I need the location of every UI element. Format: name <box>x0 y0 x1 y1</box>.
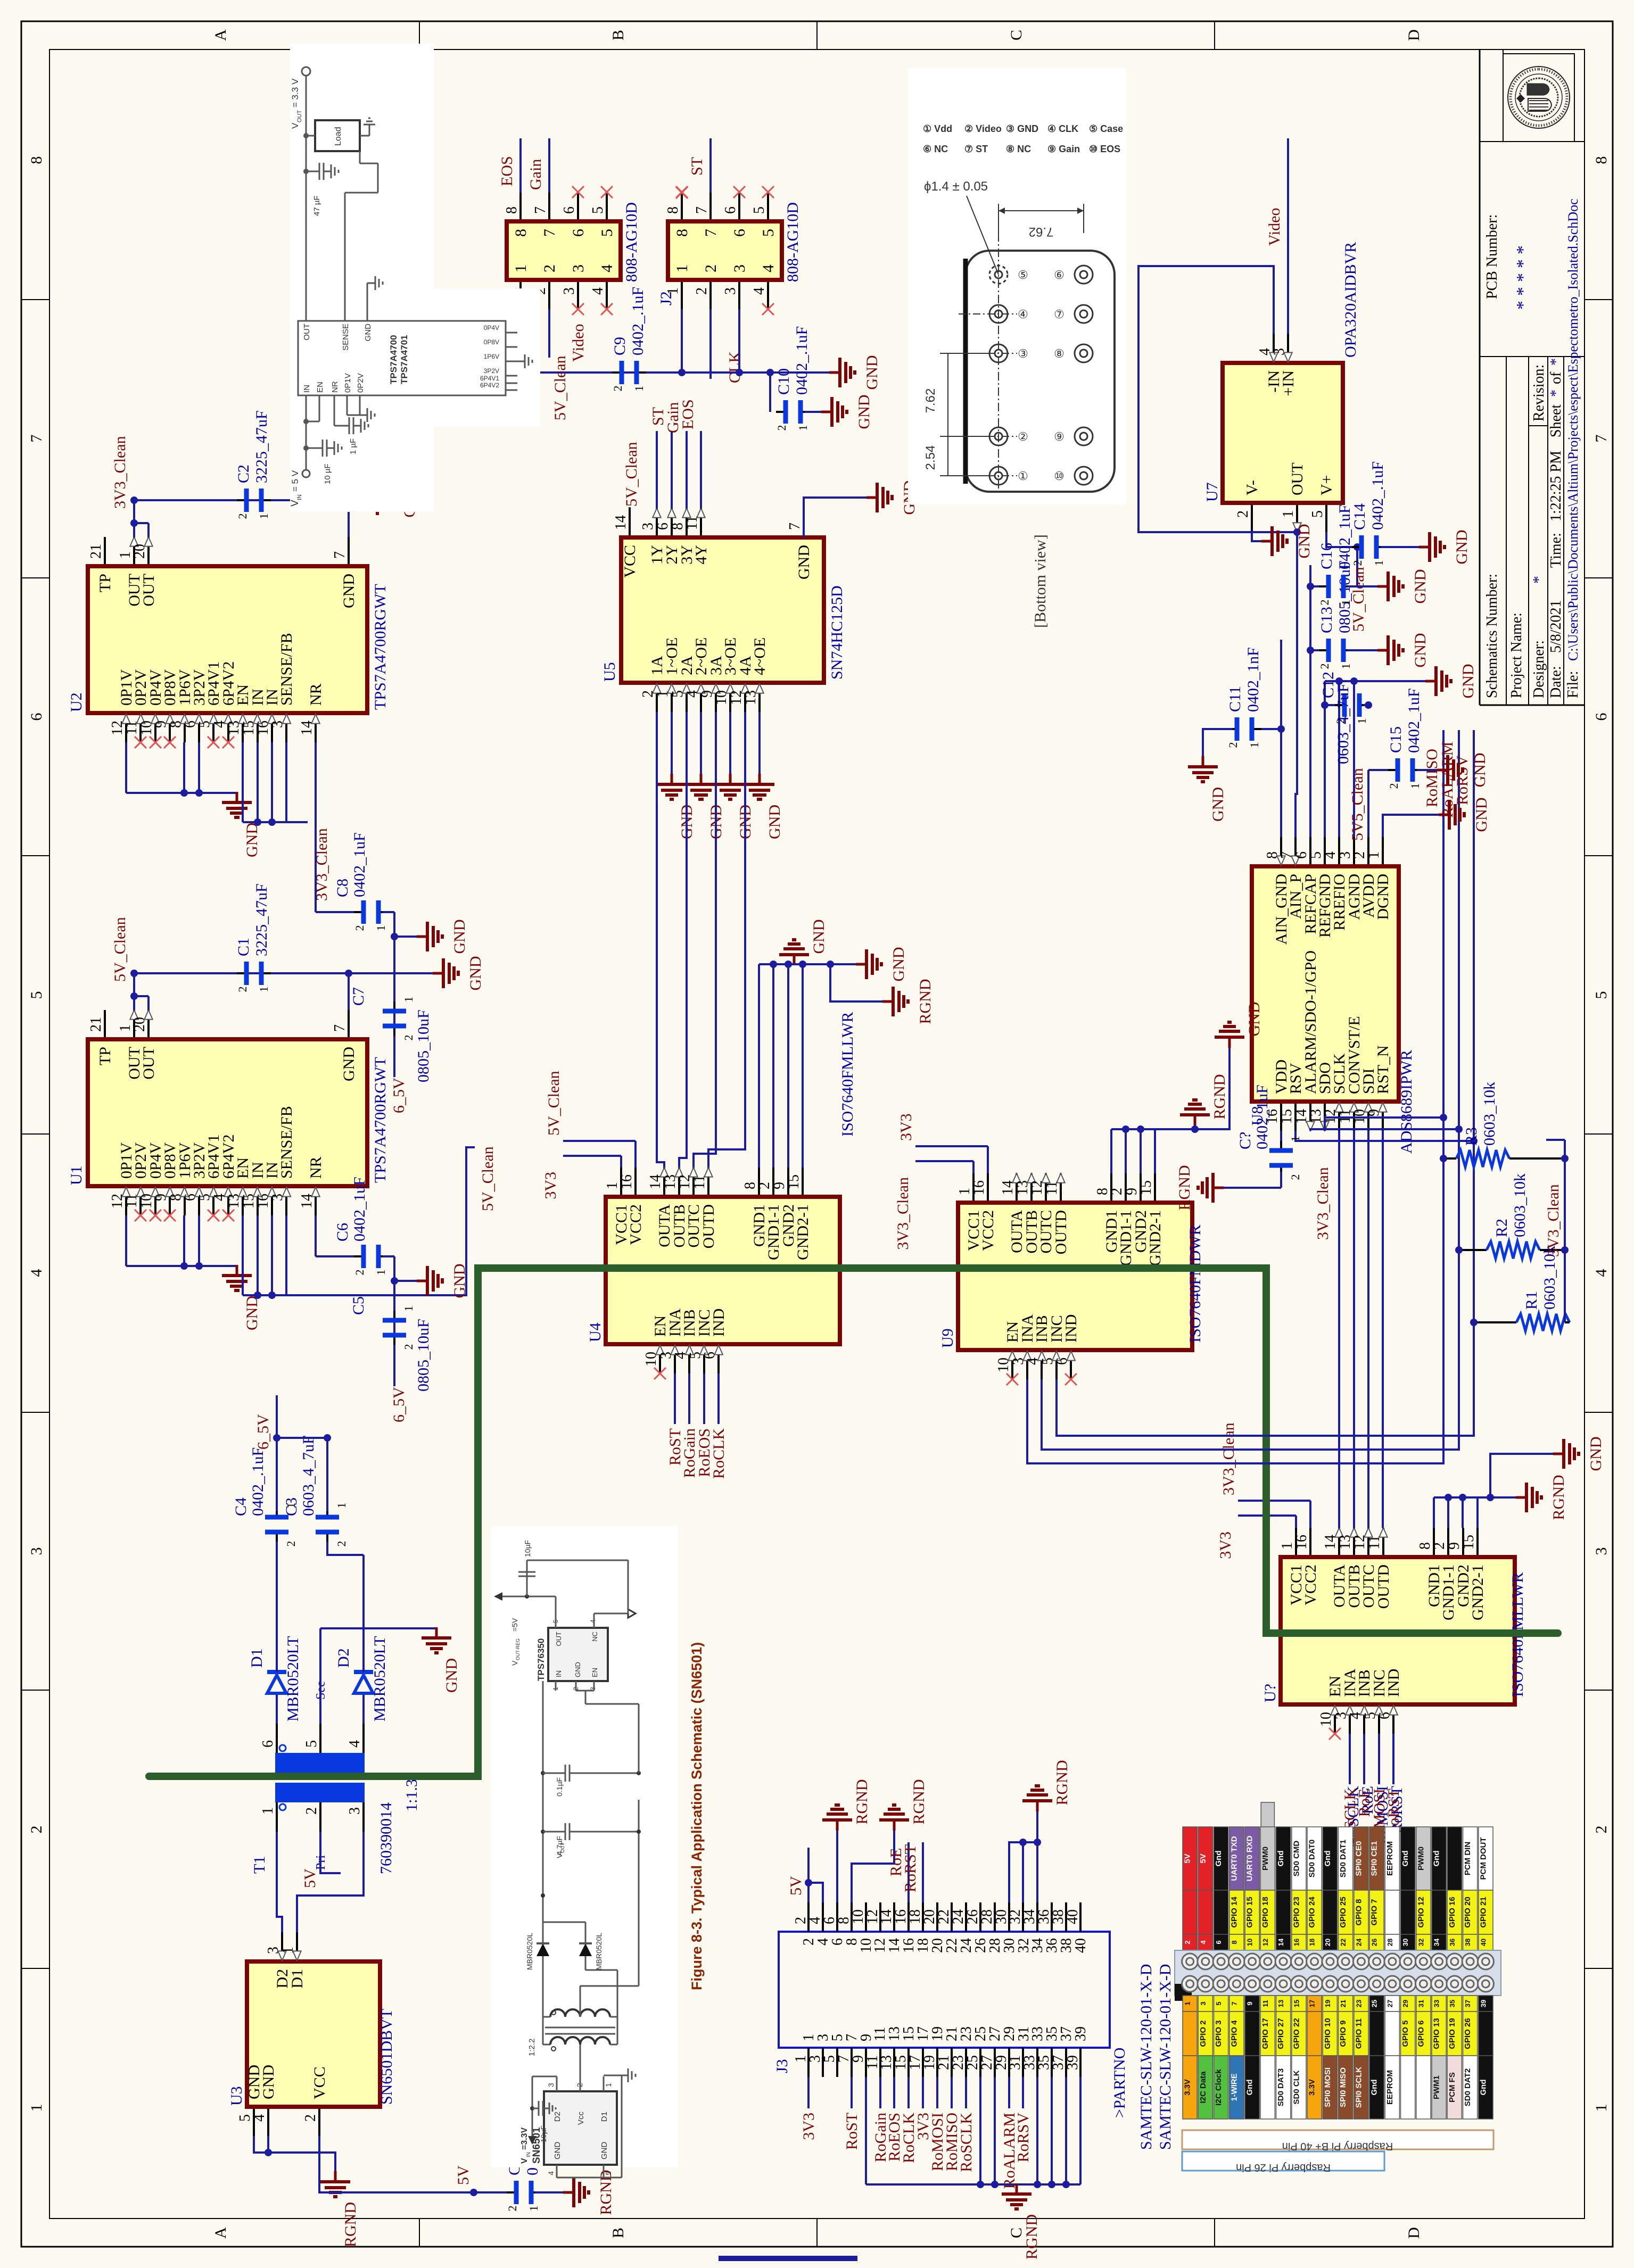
svg-text:6: 6 <box>655 523 671 530</box>
svg-text:33: 33 <box>1433 2000 1441 2007</box>
svg-text:C11: C11 <box>1226 686 1244 712</box>
svg-text:①: ① <box>1018 469 1028 483</box>
svg-text:IN: IN <box>526 2152 532 2157</box>
svg-text:16: 16 <box>1292 1939 1300 1946</box>
svg-text:3: 3 <box>731 264 748 272</box>
svg-text:1:22:25 PM: 1:22:25 PM <box>1548 451 1564 522</box>
svg-text:RoST: RoST <box>843 2113 861 2150</box>
svg-text:3: 3 <box>346 1807 363 1815</box>
svg-text:U4: U4 <box>587 1322 604 1342</box>
svg-text:14: 14 <box>613 515 629 530</box>
svg-text:Gnd: Gnd <box>1479 2080 1488 2096</box>
svg-text:Gnd: Gnd <box>1276 1851 1285 1867</box>
svg-text:0402_.1uF: 0402_.1uF <box>629 287 647 355</box>
svg-text:GPIO 10: GPIO 10 <box>1323 2018 1332 2049</box>
svg-text:A: A <box>212 29 229 41</box>
svg-text:2: 2 <box>335 1541 348 1547</box>
svg-text:1: 1 <box>604 2083 613 2087</box>
svg-text:OUTD: OUTD <box>700 1204 717 1248</box>
svg-text:OPA320AIDBVR: OPA320AIDBVR <box>1342 242 1359 358</box>
svg-text:C5: C5 <box>350 1296 367 1315</box>
svg-text:RGND: RGND <box>1211 1074 1228 1119</box>
svg-text:32: 32 <box>1417 1939 1425 1946</box>
svg-text:0402_1uF: 0402_1uF <box>1253 1085 1271 1149</box>
svg-text:SD0 DAT2: SD0 DAT2 <box>1463 2068 1472 2106</box>
svg-text:RGND: RGND <box>1053 1760 1071 1805</box>
svg-text:U5: U5 <box>601 662 618 682</box>
svg-text:5: 5 <box>1592 991 1610 999</box>
svg-text:SPI0 MOSI: SPI0 MOSI <box>1323 2067 1332 2107</box>
svg-text:RoRSV: RoRSV <box>1014 2113 1032 2163</box>
svg-text:GND: GND <box>243 1296 261 1330</box>
svg-text:GPIO 19: GPIO 19 <box>1448 2018 1457 2049</box>
svg-text:1: 1 <box>1355 718 1368 724</box>
svg-text:SN6501DBVT: SN6501DBVT <box>378 2009 395 2105</box>
svg-text:EN: EN <box>316 382 325 393</box>
svg-text:GND: GND <box>810 920 828 954</box>
svg-text:1: 1 <box>1339 600 1352 606</box>
svg-text:⑧: ⑧ <box>1054 347 1064 360</box>
svg-text:GPIO 4: GPIO 4 <box>1229 2020 1239 2047</box>
svg-text:1: 1 <box>673 264 691 272</box>
svg-text:OUT: OUT <box>140 574 158 607</box>
svg-text:47 µF: 47 µF <box>312 195 321 216</box>
svg-text:GND: GND <box>443 1658 460 1693</box>
svg-text:④: ④ <box>1018 308 1028 321</box>
svg-text:⑨: ⑨ <box>1054 430 1064 443</box>
svg-text:NC: NC <box>591 1632 599 1642</box>
svg-text:U3: U3 <box>228 2086 245 2106</box>
svg-text:GPIO 22: GPIO 22 <box>1292 2018 1301 2049</box>
svg-text:4: 4 <box>251 2114 268 2122</box>
svg-text:2: 2 <box>506 2206 519 2212</box>
svg-text:1: 1 <box>632 386 646 392</box>
svg-text:0402_1uF: 0402_1uF <box>1405 688 1423 753</box>
svg-text:SENSE/FB: SENSE/FB <box>278 1106 295 1179</box>
svg-text:36: 36 <box>1448 1939 1456 1946</box>
svg-text:VCC: VCC <box>311 2066 328 2099</box>
svg-text:2: 2 <box>611 386 624 392</box>
svg-text:7: 7 <box>541 229 558 237</box>
svg-text:*: * <box>1513 245 1533 254</box>
svg-text:=5V: =5V <box>510 1618 519 1632</box>
svg-text:GND: GND <box>1412 569 1429 604</box>
svg-text:GPIO 11: GPIO 11 <box>1354 2018 1363 2049</box>
svg-text:GND: GND <box>340 1047 358 1081</box>
svg-text:U2: U2 <box>68 692 85 712</box>
svg-text:27: 27 <box>1386 2000 1394 2007</box>
svg-text:19: 19 <box>1324 2000 1332 2007</box>
svg-text:GND: GND <box>574 1662 582 1677</box>
svg-text:3V3_Clean: 3V3_Clean <box>894 1177 912 1250</box>
svg-text:NR: NR <box>307 1156 325 1179</box>
svg-text:17: 17 <box>1308 2000 1316 2007</box>
svg-text:SAMTEC-SLW-120-01-X-D: SAMTEC-SLW-120-01-X-D <box>1137 1964 1155 2150</box>
svg-text:1: 1 <box>512 264 530 272</box>
svg-text:3: 3 <box>1199 2001 1207 2005</box>
svg-text:8: 8 <box>504 206 520 214</box>
svg-text:7: 7 <box>332 551 348 559</box>
svg-text:C2: C2 <box>235 465 252 483</box>
svg-text:GND: GND <box>1209 787 1227 822</box>
svg-text:GND: GND <box>1245 1002 1263 1037</box>
svg-text:B: B <box>609 2228 627 2238</box>
svg-text:21: 21 <box>1339 2000 1347 2007</box>
svg-text:MBR0520LT: MBR0520LT <box>284 1636 302 1721</box>
svg-text:1: 1 <box>1248 742 1261 748</box>
svg-text:0603_4_7uF: 0603_4_7uF <box>1334 683 1352 764</box>
svg-text:RGND: RGND <box>342 2202 359 2247</box>
svg-text:5V_Clean: 5V_Clean <box>479 1146 497 1211</box>
svg-text:GND: GND <box>364 324 373 342</box>
svg-text:11: 11 <box>1261 2000 1269 2007</box>
svg-text:1: 1 <box>402 997 415 1003</box>
svg-text:GND2-1: GND2-1 <box>1146 1210 1164 1266</box>
svg-text:6: 6 <box>731 229 748 237</box>
svg-text:2: 2 <box>402 1344 415 1350</box>
svg-text:Gnd: Gnd <box>1245 2080 1255 2096</box>
svg-text:EEPROM: EEPROM <box>1385 1841 1394 1876</box>
svg-text:0402_.1uF: 0402_.1uF <box>793 326 811 395</box>
svg-text:C9: C9 <box>611 337 629 355</box>
svg-text:⑧ NC: ⑧ NC <box>1006 144 1031 154</box>
svg-text:1: 1 <box>335 1503 348 1509</box>
svg-text:ADS8689IPWR: ADS8689IPWR <box>1398 1050 1415 1154</box>
svg-text:>PARTNO: >PARTNO <box>1111 2048 1128 2118</box>
svg-text:⑦: ⑦ <box>1054 308 1064 321</box>
svg-text:OUT-REG: OUT-REG <box>515 1638 521 1660</box>
svg-text:1: 1 <box>1184 2001 1192 2005</box>
svg-text:2: 2 <box>1226 742 1240 748</box>
svg-text:PWM1: PWM1 <box>1432 2075 1441 2099</box>
svg-text:2: 2 <box>1431 1542 1448 1550</box>
svg-text:OUT: OUT <box>140 1047 158 1080</box>
svg-text:6P4V2: 6P4V2 <box>480 382 499 389</box>
svg-text:4: 4 <box>1592 1269 1610 1277</box>
svg-text:5V: 5V <box>455 2165 472 2185</box>
svg-text:1:1.3: 1:1.3 <box>403 1779 420 1811</box>
svg-text:13: 13 <box>1277 2000 1285 2007</box>
svg-text:2: 2 <box>353 925 366 931</box>
svg-text:4: 4 <box>1199 1940 1207 1944</box>
svg-text:GPIO 27: GPIO 27 <box>1276 2018 1285 2049</box>
svg-text:0603_10k: 0603_10k <box>1511 1173 1529 1237</box>
svg-text:ST: ST <box>688 157 706 176</box>
svg-text:2: 2 <box>1184 1940 1192 1944</box>
svg-text:PWM0: PWM0 <box>1416 1847 1425 1870</box>
svg-text:⑦ ST: ⑦ ST <box>964 144 988 154</box>
svg-text:SENSE/FB: SENSE/FB <box>278 633 295 706</box>
svg-text:GND: GND <box>795 545 813 580</box>
svg-text:I2C Data: I2C Data <box>1199 2071 1208 2104</box>
svg-text:ISO7640FMLLWR: ISO7640FMLLWR <box>839 1012 856 1137</box>
svg-text:⑨ Gain: ⑨ Gain <box>1047 144 1080 154</box>
svg-text:3V3: 3V3 <box>800 2113 818 2140</box>
svg-text:7: 7 <box>1230 2001 1238 2005</box>
svg-text:⑤ Case: ⑤ Case <box>1089 123 1123 134</box>
svg-text:GND2-1: GND2-1 <box>794 1204 812 1260</box>
svg-text:Gain: Gain <box>527 159 544 190</box>
svg-text:20: 20 <box>1324 1939 1332 1946</box>
svg-text:*: * <box>1548 358 1564 366</box>
svg-text:Gnd: Gnd <box>1401 1851 1410 1867</box>
svg-text:C7: C7 <box>350 987 367 1006</box>
svg-text:U?: U? <box>1261 1684 1279 1702</box>
svg-text:15: 15 <box>1460 1535 1477 1550</box>
svg-text:GND: GND <box>600 2142 609 2160</box>
svg-text:GND: GND <box>1453 530 1471 565</box>
svg-text:R1: R1 <box>1523 1291 1540 1310</box>
svg-text:2: 2 <box>694 287 710 295</box>
svg-text:C: C <box>1008 30 1025 40</box>
svg-text:GND: GND <box>553 2142 562 2160</box>
svg-text:of: of <box>1548 371 1564 384</box>
svg-text:39: 39 <box>1072 2026 1089 2041</box>
svg-text:V: V <box>290 500 301 507</box>
svg-text:*: * <box>1548 390 1564 397</box>
svg-text:1: 1 <box>665 287 681 295</box>
svg-text:OUT: OUT <box>296 110 303 123</box>
svg-text:2: 2 <box>1318 664 1331 669</box>
svg-text:3.3V: 3.3V <box>1183 2079 1192 2096</box>
svg-text:1: 1 <box>1372 560 1385 566</box>
svg-text:16: 16 <box>618 1174 635 1189</box>
svg-text:J3: J3 <box>773 2059 791 2073</box>
svg-text:Figure 8-3. Typical Applicatio: Figure 8-3. Typical Application Schemati… <box>689 1642 705 1990</box>
svg-text:GPIO 12: GPIO 12 <box>1416 1897 1425 1927</box>
svg-text:10µF: 10µF <box>523 1540 532 1557</box>
svg-text:40: 40 <box>1072 1938 1089 1953</box>
svg-text:38: 38 <box>1464 1939 1472 1946</box>
svg-text:RoCLK: RoCLK <box>710 1428 728 1479</box>
svg-text:RGND: RGND <box>1176 1165 1193 1210</box>
svg-text:4: 4 <box>589 1619 597 1623</box>
svg-text:0402_.1uF: 0402_.1uF <box>1369 461 1387 530</box>
svg-text:5V: 5V <box>301 1868 319 1888</box>
svg-text:Video: Video <box>1266 208 1283 246</box>
svg-text:SENSE: SENSE <box>341 324 350 351</box>
svg-text:SD0 DAT3: SD0 DAT3 <box>1276 2068 1285 2106</box>
svg-text:7: 7 <box>332 1024 348 1032</box>
svg-text:4~OE: 4~OE <box>751 638 769 675</box>
svg-text:16: 16 <box>971 1180 987 1195</box>
svg-text:RGND: RGND <box>597 2170 615 2215</box>
svg-text:15: 15 <box>1278 1109 1295 1124</box>
svg-text:9: 9 <box>1246 2001 1254 2005</box>
svg-text:③: ③ <box>1018 347 1028 360</box>
svg-text:1: 1 <box>374 1270 387 1276</box>
svg-text:15: 15 <box>1138 1180 1154 1195</box>
svg-text:PCB Number:: PCB Number: <box>1484 214 1500 299</box>
svg-text:5V: 5V <box>787 1876 805 1895</box>
svg-text:7: 7 <box>694 206 710 214</box>
svg-text:35: 35 <box>1448 2000 1456 2007</box>
svg-text:1: 1 <box>1592 2104 1610 2112</box>
svg-text:MBR0520L: MBR0520L <box>595 1933 603 1970</box>
svg-text:2: 2 <box>28 1826 45 1834</box>
svg-text:5V_Clean: 5V_Clean <box>623 442 640 507</box>
svg-text:VCC2: VCC2 <box>1302 1565 1319 1605</box>
svg-text:7: 7 <box>532 206 549 214</box>
svg-text:D2: D2 <box>335 1648 352 1668</box>
svg-text:C6: C6 <box>334 1223 351 1241</box>
svg-text:Designer:: Designer: <box>1531 640 1547 698</box>
svg-text:SPI0 CE0: SPI0 CE0 <box>1354 1841 1363 1876</box>
svg-text:0.1µF: 0.1µF <box>555 1777 564 1797</box>
svg-text:1: 1 <box>1280 510 1297 518</box>
svg-text:RGND: RGND <box>1550 1475 1567 1520</box>
svg-text:⑥ NC: ⑥ NC <box>923 144 948 154</box>
svg-text:Load: Load <box>334 127 343 146</box>
svg-text:SPI0 CE1: SPI0 CE1 <box>1370 1841 1379 1876</box>
svg-text:6_5V: 6_5V <box>390 1387 408 1422</box>
svg-text:OUT: OUT <box>1289 462 1306 495</box>
svg-text:GPIO 3: GPIO 3 <box>1214 2020 1223 2047</box>
svg-text:2: 2 <box>702 264 720 272</box>
svg-text:25: 25 <box>1371 2000 1379 2007</box>
svg-text:GPIO 13: GPIO 13 <box>1432 2018 1441 2049</box>
svg-text:VCC2: VCC2 <box>627 1204 645 1245</box>
svg-text:CLK: CLK <box>726 351 744 383</box>
svg-text:28: 28 <box>1386 1939 1394 1946</box>
svg-text:2: 2 <box>1387 783 1400 789</box>
svg-text:RST_N: RST_N <box>1374 1045 1392 1094</box>
svg-text:TPS7A4701: TPS7A4701 <box>399 335 409 384</box>
svg-text:4: 4 <box>346 1740 363 1748</box>
svg-text:D: D <box>1405 29 1423 41</box>
svg-text:2: 2 <box>284 1541 298 1547</box>
svg-text:3V3: 3V3 <box>1217 1532 1234 1559</box>
svg-text:OUTD: OUTD <box>1375 1565 1392 1609</box>
svg-text:GPIO 20: GPIO 20 <box>1463 1897 1472 1927</box>
svg-text:File:: File: <box>1565 671 1581 698</box>
svg-text:SN74HC125D: SN74HC125D <box>828 585 846 680</box>
svg-text:GPIO 7: GPIO 7 <box>1370 1899 1379 1925</box>
svg-text:TP: TP <box>96 1047 114 1065</box>
svg-text:C15: C15 <box>1387 726 1405 753</box>
svg-text:GPIO 5: GPIO 5 <box>1401 2020 1410 2047</box>
svg-text:21: 21 <box>88 544 104 559</box>
svg-text:3P2V: 3P2V <box>484 367 499 375</box>
svg-text:5: 5 <box>1215 2001 1223 2005</box>
svg-text:GPIO 15: GPIO 15 <box>1245 1897 1255 1927</box>
svg-text:4.7µF: 4.7µF <box>555 1836 564 1855</box>
svg-text:V-: V- <box>1243 480 1261 495</box>
svg-text:2: 2 <box>756 1182 773 1189</box>
svg-text:0402_1uF: 0402_1uF <box>351 832 368 897</box>
svg-text:2: 2 <box>1235 510 1251 518</box>
svg-text:R2: R2 <box>1493 1219 1511 1237</box>
svg-text:DGND: DGND <box>1374 874 1392 920</box>
svg-text:3V3: 3V3 <box>897 1113 915 1141</box>
svg-text:IN: IN <box>296 494 303 500</box>
svg-text:5V: 5V <box>1199 1853 1208 1863</box>
svg-text:GPIO 26: GPIO 26 <box>1463 2018 1472 2049</box>
svg-text:1: 1 <box>527 2206 540 2212</box>
svg-text:TPS76350: TPS76350 <box>536 1638 546 1681</box>
svg-text:7: 7 <box>28 435 45 443</box>
svg-text:2: 2 <box>402 1035 415 1041</box>
svg-text:IND: IND <box>1385 1669 1402 1697</box>
svg-text:SD0 DAT0: SD0 DAT0 <box>1308 1840 1317 1877</box>
svg-text:Time:: Time: <box>1548 533 1564 568</box>
svg-text:1: 1 <box>1408 783 1422 789</box>
svg-text:EOS: EOS <box>498 156 516 186</box>
svg-text:2: 2 <box>1289 1174 1302 1180</box>
svg-text:0805_10uF: 0805_10uF <box>415 1009 432 1082</box>
svg-text:GND: GND <box>855 395 873 429</box>
svg-text:26: 26 <box>1371 1939 1379 1946</box>
svg-text:2: 2 <box>1318 600 1331 606</box>
svg-text:= 5 V: = 5 V <box>290 470 300 492</box>
svg-text:40: 40 <box>1064 1909 1081 1924</box>
svg-text:IND: IND <box>710 1309 728 1337</box>
svg-text:⑩: ⑩ <box>1054 469 1064 483</box>
svg-text:② Video: ② Video <box>964 123 1002 134</box>
svg-text:A: A <box>212 2227 229 2239</box>
svg-text:6_5V: 6_5V <box>390 1078 408 1113</box>
svg-text:V+: V+ <box>1318 475 1335 495</box>
svg-text:3: 3 <box>722 287 739 295</box>
svg-text:GND: GND <box>467 956 484 991</box>
svg-text:1: 1 <box>257 987 270 992</box>
svg-text:D1: D1 <box>600 2112 609 2122</box>
svg-text:RoRSV: RoRSV <box>1454 755 1471 805</box>
svg-text:10: 10 <box>1246 1939 1254 1946</box>
svg-text:MBR0520L: MBR0520L <box>525 1933 534 1970</box>
svg-text:RGND: RGND <box>910 1779 928 1824</box>
svg-text:SAMTEC-SLW-120-01-X-D: SAMTEC-SLW-120-01-X-D <box>1157 1964 1174 2150</box>
svg-text:GND: GND <box>260 2065 277 2099</box>
svg-text:Gnd: Gnd <box>1214 1851 1223 1867</box>
svg-text:3225_47uF: 3225_47uF <box>253 410 270 483</box>
svg-text:Project Name:: Project Name: <box>1508 612 1525 698</box>
svg-text:10 µF: 10 µF <box>323 463 332 484</box>
svg-text:3V3: 3V3 <box>542 1172 559 1199</box>
svg-text:*: * <box>1513 259 1533 268</box>
svg-text:Gnd: Gnd <box>1432 1851 1441 1867</box>
svg-text:0805_10uF: 0805_10uF <box>415 1319 432 1392</box>
svg-text:7: 7 <box>1592 435 1610 443</box>
svg-text:5: 5 <box>604 2171 613 2175</box>
svg-text:Raspberry Pi 26 Pin: Raspberry Pi 26 Pin <box>1236 2162 1331 2173</box>
svg-text:0P8V: 0P8V <box>484 338 499 346</box>
svg-text:8: 8 <box>1592 156 1610 164</box>
svg-text:= 3.3 V: = 3.3 V <box>290 78 300 107</box>
svg-text:MBR0520LT: MBR0520LT <box>371 1636 389 1721</box>
svg-text:2: 2 <box>236 514 249 519</box>
svg-text:39: 39 <box>1479 2000 1487 2007</box>
svg-text:12: 12 <box>1261 1939 1269 1946</box>
svg-text:TPS7A4700: TPS7A4700 <box>389 335 399 384</box>
svg-text:C4: C4 <box>232 1497 250 1516</box>
svg-text:U7: U7 <box>1203 482 1221 502</box>
svg-text:5V_Clean: 5V_Clean <box>111 917 129 982</box>
svg-text:GND: GND <box>451 920 468 954</box>
svg-text:5: 5 <box>303 1740 320 1748</box>
svg-text:GPIO 2: GPIO 2 <box>1199 2020 1208 2047</box>
svg-text:IN: IN <box>555 1670 563 1677</box>
svg-text:7: 7 <box>787 523 803 530</box>
svg-text:SPI0 MISO: SPI0 MISO <box>1339 2067 1348 2107</box>
svg-text:2: 2 <box>353 1270 366 1276</box>
svg-text:3V3_Clean: 3V3_Clean <box>111 436 129 509</box>
svg-text:⑤: ⑤ <box>1018 268 1028 282</box>
svg-text:0402_1uF: 0402_1uF <box>1336 504 1354 569</box>
svg-text:1: 1 <box>1366 851 1382 859</box>
svg-text:6: 6 <box>1215 1940 1223 1944</box>
svg-text:TP: TP <box>96 574 114 592</box>
